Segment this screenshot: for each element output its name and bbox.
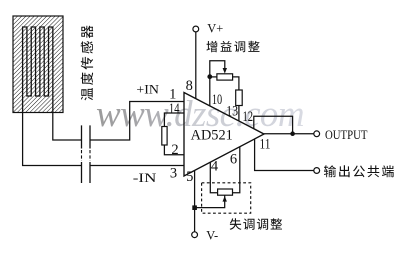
- svg-text:OUTPUT: OUTPUT: [325, 128, 368, 142]
- junction dot output node: [290, 131, 295, 136]
- resistor R2 (gain series): [236, 90, 243, 106]
- offset pot wiper arrow: [223, 196, 227, 202]
- svg-text:-IN: -IN: [133, 171, 157, 185]
- wire pin 5 / V-: [194, 171, 196, 232]
- sensor element meander: [23, 27, 53, 113]
- svg-text:14: 14: [169, 101, 180, 117]
- svg-text:12: 12: [243, 109, 254, 125]
- connector / shielded pair plates: [82, 125, 91, 183]
- label 温度传感器 (vertical): [81, 26, 93, 101]
- wire gain pot wiper rail: [210, 61, 225, 106]
- wire output: [264, 133, 314, 135]
- label 输出公共端: [324, 165, 394, 177]
- svg-text:5: 5: [186, 169, 193, 185]
- op-amp U1 AD521 triangle: [184, 93, 264, 177]
- svg-text:3: 3: [170, 165, 177, 181]
- wire sensor right lead to +IN line: [53, 113, 82, 141]
- resistor R1: [162, 127, 167, 146]
- wire sensor left lead to -IN line: [23, 113, 82, 166]
- dashed enclosure (offset trim): [202, 183, 251, 213]
- common terminal: [314, 168, 320, 174]
- wire wiper to V- node: [196, 195, 225, 207]
- wire V+ to pin 8: [195, 32, 197, 99]
- wire pin 14 stub: [164, 113, 184, 127]
- svg-text:4: 4: [211, 159, 219, 175]
- wire pin 6 to pot: [233, 147, 240, 193]
- svg-text:V+: V+: [207, 21, 223, 35]
- svg-text:AD521: AD521: [191, 127, 233, 143]
- junction dot wiper/V-: [192, 205, 197, 210]
- label 失调调整: [230, 218, 282, 230]
- wire pin 2 stub: [164, 145, 184, 155]
- svg-text:2: 2: [171, 142, 178, 158]
- OUTPUT terminal: [314, 131, 320, 137]
- wire pot right lead down: [233, 77, 239, 90]
- potentiometer RP1 (gain): [217, 74, 233, 80]
- svg-text:8: 8: [186, 78, 193, 94]
- svg-text:+IN: +IN: [136, 82, 159, 96]
- junction dot pin10/pot: [207, 74, 212, 79]
- wire pin 4 to pot: [210, 162, 217, 193]
- wire pin 11 to common terminal: [255, 139, 314, 171]
- gain pot wiper arrow: [223, 68, 227, 74]
- svg-text:6: 6: [230, 151, 237, 167]
- svg-text:V-: V-: [206, 229, 218, 243]
- temperature sensor RT (hatched box): [13, 16, 63, 113]
- wire R2 to pin 13: [238, 106, 240, 122]
- svg-text:10: 10: [212, 92, 222, 108]
- potentiometer RP2 (offset): [218, 189, 233, 195]
- wire -IN: connector to pin 3: [90, 165, 184, 167]
- svg-text:11: 11: [260, 136, 271, 152]
- V- terminal: [192, 232, 198, 238]
- wire pin 12 to output node: [254, 116, 293, 133]
- label 增益调整: [207, 41, 260, 52]
- V+ terminal: [193, 26, 199, 32]
- wire pot left lead: [210, 76, 217, 78]
- wire +IN: connector to pin 1: [90, 102, 184, 141]
